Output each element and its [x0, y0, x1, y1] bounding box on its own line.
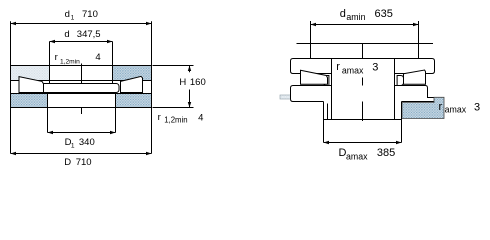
cage band	[42, 84, 120, 93]
cage end cap right (right drawing)	[397, 76, 403, 86]
shaft bore line right	[394, 59, 396, 120]
arrow H up	[188, 66, 191, 72]
arrow Da left	[324, 141, 330, 144]
dimension line D 710	[11, 153, 152, 155]
svg-text:d: d	[340, 8, 346, 20]
housing shoulder shaded block	[402, 97, 444, 118]
shaft washer band	[291, 59, 435, 74]
shaft washer top bar	[11, 66, 152, 81]
centerline right lower	[362, 78, 364, 122]
H extension line top	[153, 65, 194, 67]
roller right (right drawing)	[404, 70, 426, 84]
shaft stub left	[280, 95, 291, 99]
svg-text:amax: amax	[445, 105, 467, 115]
arrow da right	[413, 23, 419, 26]
shaft washer outline	[11, 66, 152, 81]
arrow D right	[146, 152, 152, 155]
shaft bore line left	[331, 59, 333, 120]
svg-text:4: 4	[95, 52, 100, 63]
arrow D1 left	[48, 131, 54, 134]
svg-text:r: r	[158, 112, 161, 123]
bore line right of housing washer	[115, 94, 117, 108]
svg-text:3: 3	[372, 61, 378, 73]
extension line D1 left	[47, 108, 49, 133]
svg-text:3: 3	[474, 101, 480, 113]
housing bore line left	[327, 104, 329, 120]
housing washer bottom bar	[11, 94, 152, 108]
dimension line d 347,5	[50, 41, 113, 43]
shaft washer section left (light)	[11, 66, 50, 80]
extension line D1 right	[115, 108, 117, 133]
svg-text:340: 340	[79, 137, 95, 148]
dimension line D1 340	[48, 132, 116, 134]
washer spigot right edge + Da extension	[401, 102, 403, 143]
extension line d right	[112, 42, 114, 84]
svg-text:amax: amax	[346, 151, 368, 161]
bore line left of housing washer	[47, 94, 49, 108]
arrow H down	[188, 102, 191, 108]
svg-text:1: 1	[71, 142, 75, 149]
roller left	[19, 77, 44, 93]
arrow D left	[11, 152, 17, 155]
dimension line Damax 385	[324, 142, 402, 144]
svg-text:710: 710	[82, 9, 98, 20]
shaft top line	[297, 43, 434, 45]
arrow d1 left	[11, 22, 17, 25]
roller right	[121, 76, 143, 92]
svg-text:d: d	[65, 9, 70, 20]
svg-text:H: H	[179, 77, 186, 88]
dimension line damin 635	[311, 24, 419, 26]
svg-text:710: 710	[76, 157, 92, 168]
extension line right outer	[151, 21, 153, 153]
H dimension line upper	[189, 66, 191, 73]
H extension line bottom	[153, 107, 194, 109]
centerline	[81, 64, 83, 115]
arrow D1 right	[110, 131, 116, 134]
arrow Da right	[396, 141, 402, 144]
svg-text:r: r	[336, 61, 340, 73]
dimension line d1 710	[11, 23, 152, 25]
roller left (right drawing)	[301, 70, 328, 84]
housing washer section right (shaded)	[116, 94, 152, 107]
extension line left outer	[10, 21, 12, 153]
svg-text:635: 635	[375, 8, 393, 20]
washer spigot left edge + Da extension	[323, 102, 325, 143]
arrow d1 right	[146, 22, 152, 25]
svg-text:1,2min: 1,2min	[60, 58, 80, 65]
arrow d right	[107, 40, 113, 43]
svg-text:amax: amax	[342, 65, 364, 75]
H dimension line lower	[189, 90, 191, 108]
bore line right of shaft washer	[112, 66, 114, 84]
svg-text:d: d	[64, 29, 69, 40]
housing washer band fill	[291, 86, 435, 102]
svg-text:amin: amin	[346, 12, 365, 22]
housing washer section left (shaded)	[11, 94, 48, 107]
arrow d left	[50, 40, 56, 43]
svg-text:r: r	[439, 101, 443, 113]
shaft washer section right (shaded)	[113, 66, 152, 80]
svg-text:160: 160	[190, 77, 206, 88]
housing washer band right outline	[395, 86, 435, 102]
svg-text:1,2min: 1,2min	[164, 116, 187, 125]
washer spigot bottom	[324, 119, 402, 121]
svg-text:347,5: 347,5	[77, 29, 101, 40]
centerline right upper	[362, 44, 364, 59]
extension line da right	[418, 21, 420, 59]
extension line da left	[310, 21, 312, 59]
housing washer band left outline	[291, 86, 332, 102]
svg-text:1: 1	[71, 14, 75, 21]
housing washer outline	[11, 94, 152, 108]
svg-text:r: r	[55, 52, 58, 63]
cage end cap left (right drawing)	[324, 76, 329, 86]
svg-text:385: 385	[377, 147, 395, 159]
svg-text:D: D	[64, 157, 71, 168]
svg-text:4: 4	[198, 113, 203, 124]
arrow da left	[311, 23, 317, 26]
extension line d left	[49, 42, 51, 84]
bore line left of shaft washer	[49, 66, 51, 84]
